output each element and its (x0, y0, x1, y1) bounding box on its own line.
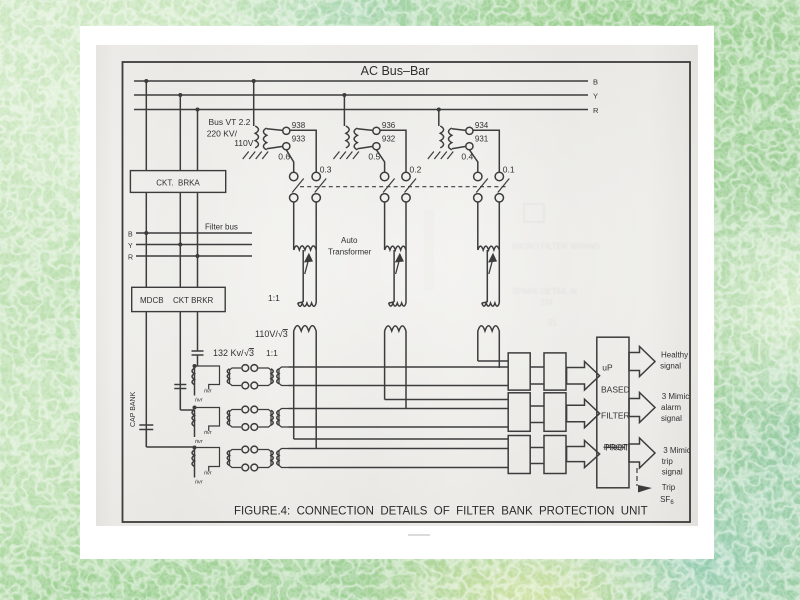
output block arrow (629, 393, 655, 423)
T2 left lead to relay row2 (385, 399, 509, 401)
CT stair link (195, 366, 220, 390)
ground symbol under VT (333, 152, 339, 160)
wire secondary to contacts (357, 129, 372, 131)
disconnector right upper circle (312, 172, 320, 180)
channel wire pair to relay (289, 366, 509, 368)
disconnector right blade (405, 179, 417, 193)
svg-text:FILTER: FILTER (601, 411, 630, 421)
auto transformer body (302, 250, 304, 302)
ghost mark 1 (424, 204, 600, 327)
relay box A row 3 (508, 436, 530, 474)
svg-text:R: R (128, 255, 133, 262)
terminal circles top pair (242, 406, 249, 413)
channel output winding (279, 449, 289, 468)
bus line B (134, 80, 588, 82)
interposing TX right clamp winding (259, 410, 272, 428)
connector wires A-B row 2 (530, 405, 544, 407)
isolation transformer left lead (384, 331, 386, 400)
svg-text:ṅvr: ṅvr (204, 471, 213, 477)
disconnector left blade (476, 179, 488, 193)
interposing TX right clamp winding (259, 450, 272, 468)
terminal circles bottom pair (242, 424, 249, 431)
svg-text:trip: trip (662, 457, 674, 466)
relay box A row 2 (508, 393, 530, 432)
isolation transformer left lead (293, 331, 295, 439)
ground symbol under VT (428, 152, 434, 160)
svg-text:CAP BANK: CAP BANK (130, 391, 137, 427)
uP BASED FILTER PROT unit box (597, 337, 629, 488)
svg-text:0.1: 0.1 (503, 165, 515, 175)
disconnector left blade (383, 179, 395, 193)
svg-text:BASED: BASED (601, 385, 630, 395)
svg-text:ṅvr: ṅvr (204, 389, 213, 395)
svg-text:Bus VT 2.2: Bus VT 2.2 (209, 117, 251, 127)
CT winding on wire (192, 450, 194, 467)
svg-text:3 Mimic: 3 Mimic (663, 446, 691, 455)
svg-text:Y: Y (593, 92, 598, 101)
auto transformer bottom winding (482, 303, 500, 306)
wire secondary to contacts (267, 129, 283, 131)
channel output winding (279, 409, 289, 428)
disconnector right upper circle (402, 172, 410, 180)
fuse link bottom contact circle 933 (283, 143, 290, 150)
capacitor C cap-bank on v1 (139, 424, 153, 426)
VT primary winding 934 (440, 126, 443, 148)
svg-text:936: 936 (382, 121, 396, 130)
disconnector right blade (498, 179, 510, 193)
wire top contact to right switch (380, 130, 406, 172)
disconnector left upper circle (474, 172, 482, 180)
wire bottom contact to left switch (286, 150, 293, 173)
svg-text:220 KV/: 220 KV/ (207, 129, 238, 139)
auto transformer top winding (294, 246, 317, 250)
svg-text:Healthy: Healthy (661, 351, 688, 360)
svg-text:0.2: 0.2 (410, 165, 422, 175)
svg-text:uP: uP (602, 363, 613, 373)
wire top contact to right switch (473, 130, 499, 172)
svg-text:938: 938 (292, 121, 306, 130)
svg-text:FIGURE.4: CONNECTION DETAILS: FIGURE.4: CONNECTION DETAILS OF FILTER B… (234, 506, 648, 518)
capacitor on v3 (192, 350, 204, 352)
output block arrow (629, 347, 655, 377)
disconnector left lower circle (474, 194, 482, 202)
wire drop v3 from bus R (197, 110, 199, 171)
svg-text:signal: signal (660, 362, 681, 371)
channel wire pair to relay (289, 448, 509, 450)
fuse link 936 top contact circle (373, 127, 380, 134)
CT stair link (195, 448, 220, 472)
interposing TX right clamp winding (259, 368, 272, 386)
auto transformer bottom winding (389, 303, 406, 306)
channel wire pair to relay (289, 408, 509, 410)
auto transformer top winding (478, 246, 500, 250)
svg-text:CKT BRKR: CKT BRKR (173, 296, 214, 305)
svg-text:alarm: alarm (661, 403, 681, 412)
svg-text:0.3: 0.3 (320, 165, 332, 175)
trip SF6 arrowhead (638, 485, 652, 493)
isolation transformer secondary winding (385, 326, 406, 331)
disconnector left lower circle (290, 194, 298, 202)
ghost dots below caption (408, 534, 430, 536)
wire v2 to row2 CT (180, 409, 194, 411)
fuse link 934 top contact circle (466, 127, 473, 134)
svg-text:SF6: SF6 (660, 495, 674, 506)
wires below MDCB box (145, 312, 147, 447)
interposing TX left clamp winding (230, 368, 242, 386)
svg-text:1:1: 1:1 (268, 293, 280, 303)
bus VT tap wire phase 934 (438, 110, 440, 127)
svg-text:ṅvr: ṅvr (195, 439, 204, 445)
svg-text:21: 21 (548, 318, 557, 327)
svg-text:934: 934 (475, 121, 489, 130)
svg-text:110V/√3: 110V/√3 (255, 329, 288, 339)
CT divider vertical wire (194, 410, 196, 437)
terminal circles bottom pair (242, 464, 249, 471)
auto transformer top winding (385, 246, 406, 250)
svg-text:3 Mimic: 3 Mimic (662, 392, 690, 401)
svg-text:SPARE DETAIL At: SPARE DETAIL At (512, 287, 578, 296)
trip SF6 dashed wire (636, 468, 638, 486)
svg-text:Y: Y (128, 243, 133, 250)
svg-text:1:1: 1:1 (266, 348, 278, 358)
svg-text:signal: signal (662, 468, 683, 477)
svg-text:231: 231 (540, 298, 554, 307)
interposing TX left clamp winding (230, 450, 242, 468)
svg-text:Transformer: Transformer (328, 248, 372, 257)
wire drop v2 from bus Y (179, 95, 181, 171)
svg-text:932: 932 (382, 135, 396, 144)
wire secondary to contacts (452, 129, 466, 131)
svg-text:signal: signal (661, 414, 682, 423)
CT stair link (195, 408, 220, 432)
CT divider vertical wire (194, 447, 196, 478)
svg-text:CKT. BRKA: CKT. BRKA (156, 179, 200, 188)
svg-text:ṅvr: ṅvr (204, 430, 213, 436)
wire v1 to row3 CT (146, 446, 194, 448)
relay box B row 2 (544, 393, 566, 432)
svg-text:B: B (593, 78, 598, 87)
wire top contact to right switch (290, 130, 316, 172)
interposing TX left clamp winding (230, 410, 242, 428)
svg-text:933: 933 (292, 135, 306, 144)
svg-text:R: R (593, 106, 599, 115)
wires below CKT BRKA box (145, 192, 147, 287)
auto transformer wires from disconnector (293, 202, 295, 246)
disconnector right blade (315, 179, 327, 193)
circuit breaker box CKT. BRKA (130, 171, 225, 193)
white slide image area (80, 26, 714, 559)
block arrow into protection unit row 2 (567, 399, 600, 428)
schematic border frame (123, 62, 691, 522)
auto transformer tap arrow (305, 261, 309, 274)
VT secondary winding 934 (449, 128, 452, 150)
wire bottom contact to left switch (376, 150, 384, 173)
output block arrow (629, 438, 655, 468)
bus line R (134, 109, 588, 111)
block arrow into protection unit row 3 (567, 441, 600, 468)
fuse link bottom contact circle 931 (466, 143, 473, 150)
bus VT tap wire phase 938 (253, 81, 255, 126)
gang dashed link line (300, 186, 507, 188)
VT primary winding 938 (255, 126, 258, 148)
disconnector left blade (292, 179, 304, 193)
isolation transformer left lead (477, 331, 479, 361)
relay box B row 1 (544, 353, 566, 390)
channel output winding (279, 367, 289, 386)
VT secondary winding 936 (354, 128, 357, 150)
svg-text:931: 931 (475, 135, 489, 144)
T1 left lead to relay row3 (294, 438, 509, 440)
scanned paper (96, 45, 698, 526)
svg-text:√3: √3 (244, 348, 254, 358)
disconnector right lower circle (495, 194, 503, 202)
terminal circles top pair (242, 446, 249, 453)
svg-text:110V: 110V (234, 138, 254, 148)
isolation transformer secondary winding (294, 326, 317, 331)
disconnector right upper circle (495, 172, 503, 180)
disconnector left lower circle (380, 194, 388, 202)
terminal circles bottom pair (242, 382, 249, 389)
svg-text:AC Bus–Bar: AC Bus–Bar (361, 64, 430, 78)
svg-text:MDCB: MDCB (140, 296, 164, 305)
disconnector right lower circle (312, 194, 320, 202)
relay box B row 3 (544, 436, 566, 474)
CT winding on wire (192, 368, 194, 385)
bus line Y (134, 94, 588, 96)
relay box A row 1 (508, 353, 530, 390)
svg-text:132 Kv/: 132 Kv/ (213, 348, 244, 358)
svg-text:Trip: Trip (662, 483, 676, 492)
T3 left lead to relay row1 (478, 360, 508, 362)
disconnector left upper circle (290, 172, 298, 180)
auto transformer bottom winding (298, 303, 317, 306)
auto transformer wires from disconnector (384, 202, 386, 246)
fuse link bottom contact circle 932 (373, 143, 380, 150)
wire bottom contact to left switch (469, 150, 477, 173)
connector wires A-B row 3 (530, 447, 544, 449)
bus VT tap wire phase 936 (343, 95, 345, 126)
connector wires A-B row 1 (530, 366, 544, 368)
block arrow into protection unit row 1 (567, 362, 600, 391)
VT secondary winding 938 (263, 128, 266, 150)
ground symbol under VT (243, 152, 249, 160)
disconnector left upper circle (380, 172, 388, 180)
auto transformer tap arrow (489, 261, 493, 274)
svg-text:Auto: Auto (341, 236, 358, 245)
auto transformer wires from disconnector (477, 202, 479, 246)
isolation transformer right lead (405, 331, 407, 409)
capacitor on v2 (174, 384, 186, 386)
disconnector right lower circle (402, 194, 410, 202)
auto transformer tap arrow (396, 261, 400, 274)
terminal circles top pair (242, 365, 249, 372)
breaker box MDCB CKT BRKR (132, 287, 226, 311)
wire drop v1 from bus B (145, 81, 147, 171)
svg-text:Filter bus: Filter bus (205, 223, 238, 232)
isolation transformer right lead (315, 331, 317, 449)
svg-text:MICRO FILTER WIRING: MICRO FILTER WIRING (512, 242, 600, 251)
svg-text:ṅvr: ṅvr (195, 480, 204, 486)
auto transformer body (486, 250, 488, 302)
fuse link 938 top contact circle (283, 127, 290, 134)
svg-text:ṅvr: ṅvr (195, 398, 204, 404)
isolation transformer secondary winding (478, 326, 499, 331)
VT primary winding 936 (346, 126, 349, 148)
svg-text:B: B (128, 232, 133, 239)
isolation transformer right lead (498, 331, 500, 368)
auto transformer body (393, 250, 395, 302)
CT divider vertical wire (194, 366, 196, 396)
CT winding on wire (192, 410, 194, 427)
